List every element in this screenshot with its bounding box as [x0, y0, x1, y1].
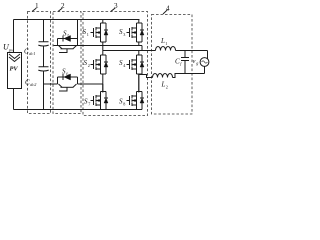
capacitor Cdc2	[38, 67, 48, 71]
svg-text:2: 2	[88, 63, 90, 68]
capacitor Cf	[181, 51, 189, 74]
svg-text:dc2: dc2	[30, 82, 36, 87]
svg-text:6: 6	[66, 71, 68, 76]
svg-text:L: L	[161, 81, 166, 89]
transistor S4 (MOSFET cell row2 right)	[127, 51, 145, 93]
label 3 tick	[111, 8, 115, 11]
transistor S7 (MOSFET cell row3 left)	[91, 84, 109, 110]
svg-text:dc1: dc1	[29, 51, 35, 56]
svg-text:3: 3	[123, 32, 125, 37]
svg-text:L: L	[160, 37, 165, 45]
svg-text:8: 8	[123, 101, 125, 106]
svg-text:1: 1	[35, 2, 39, 10]
PV source box	[8, 53, 22, 89]
PV chevron	[9, 54, 20, 62]
inductor L2	[153, 74, 173, 78]
wire PV bottom lead	[13, 89, 15, 110]
wire capacitor rail	[43, 20, 45, 110]
svg-text:C: C	[175, 58, 180, 66]
dashed box 1	[28, 12, 51, 114]
switch S6	[58, 74, 78, 91]
svg-text:C: C	[25, 79, 30, 87]
svg-text:2: 2	[61, 2, 65, 10]
svg-text:4: 4	[123, 63, 126, 68]
svg-text:C: C	[24, 48, 29, 56]
transistor S8 (MOSFET cell row3 right)	[127, 75, 145, 110]
svg-text:v: v	[193, 58, 196, 65]
svg-text:3: 3	[114, 2, 118, 10]
svg-text:g: g	[196, 61, 198, 66]
svg-text:f: f	[180, 61, 182, 66]
transistor S2 (MOSFET cell row2 left)	[91, 46, 109, 93]
wire bridge to L2	[139, 75, 153, 78]
transistor S1 (MOSFET cell row1 left)	[91, 20, 109, 46]
wire PV top lead	[13, 20, 15, 53]
svg-text:1: 1	[165, 41, 167, 46]
wire top rail	[14, 19, 140, 21]
label 1 tick	[32, 8, 36, 11]
svg-text:1: 1	[87, 32, 89, 37]
dashed box 3	[83, 12, 148, 116]
wire node A (upper bridge link)	[54, 45, 143, 47]
wire S6 bar to left leg	[78, 83, 103, 85]
wire A-B vertical link	[141, 46, 143, 51]
capacitor Cdc1	[38, 42, 48, 46]
wire S6 bar to cap rail	[44, 83, 58, 85]
wire L2 to grid bottom	[173, 66, 205, 77]
svg-text:PV: PV	[10, 66, 19, 73]
wire bottom rail	[14, 109, 139, 111]
svg-text:7: 7	[88, 101, 90, 106]
svg-text:4: 4	[166, 4, 170, 12]
svg-text:2: 2	[166, 84, 168, 89]
AC source vg	[200, 58, 209, 67]
wire L1 to grid	[176, 51, 208, 59]
dashed box 4	[152, 15, 193, 115]
label 2 tick	[58, 8, 62, 11]
inductor L1	[156, 47, 176, 51]
wire node B to L1	[103, 50, 156, 52]
svg-text:5: 5	[67, 33, 69, 38]
dashed box 2	[53, 12, 81, 114]
switch S5	[58, 20, 78, 53]
svg-text:pv: pv	[8, 48, 14, 53]
transistor S3 (MOSFET cell row1 right)	[127, 20, 145, 46]
label 4 tick	[163, 10, 168, 14]
